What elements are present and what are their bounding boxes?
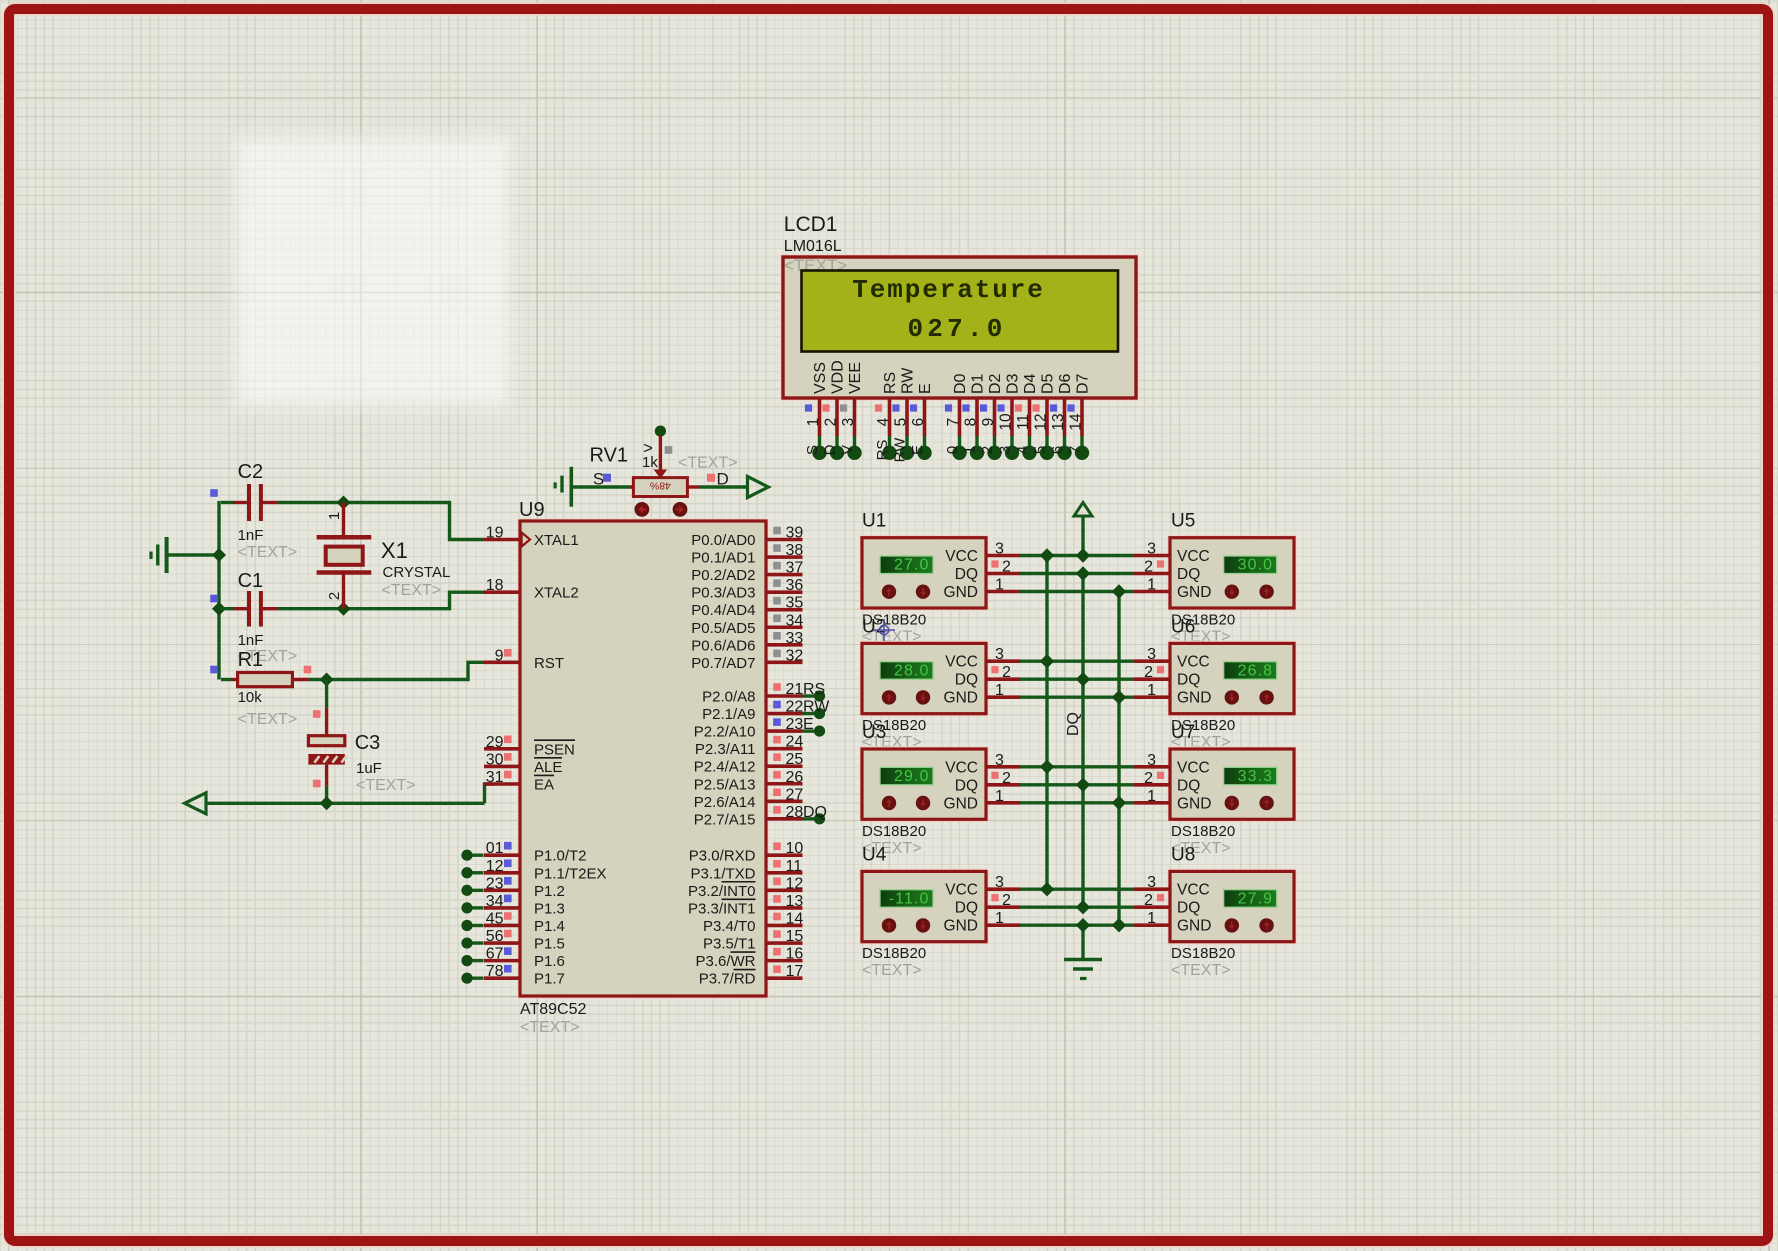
svg-text:V: V [839,445,856,455]
C1 terminal marker [210,595,218,603]
U9 pin 39 P0.0/AD0 [691,525,803,550]
junction VCC bus row4 [1040,882,1054,896]
svg-text:VCC: VCC [945,759,978,776]
U9 pin 25 P2.4/A12 [694,751,804,776]
U9 pin 38 P0.1/AD1 [691,542,803,567]
sensor row 1 GND wire [1020,590,1134,593]
svg-text:9: 9 [495,647,504,664]
U9 pin 1 P1.0/T2 [461,840,586,865]
U9 pin 15 P3.5/T1 [703,928,803,953]
resistor R1 [221,649,327,706]
svg-text:P0.7/AD7: P0.7/AD7 [691,655,755,672]
svg-text:32: 32 [786,647,804,664]
wire C1 to XTAL2 [344,592,485,609]
svg-text:DQ: DQ [955,777,978,794]
DQ bus label [1065,712,1082,736]
svg-text:29: 29 [486,734,504,751]
svg-text:GND: GND [1177,690,1211,707]
svg-text:D6: D6 [1057,373,1074,394]
svg-text:2: 2 [1002,892,1011,909]
svg-text:2: 2 [326,592,343,600]
svg-text:<TEXT>: <TEXT> [238,711,298,728]
DQ bus vertical [1081,574,1084,908]
svg-text:VEE: VEE [847,362,864,394]
junction DQ row1 [1076,566,1090,580]
svg-text:2: 2 [823,418,840,427]
U1 reference label [862,511,886,532]
svg-text:ALE: ALE [534,759,562,776]
svg-text:1: 1 [1147,788,1156,805]
cursor crosshair [873,619,895,641]
U9 pin 8 P1.7 [461,963,564,988]
U9 pin 26 P2.5/A13 [694,769,804,794]
svg-text:GND: GND [1177,918,1211,935]
svg-text:2: 2 [1144,892,1153,909]
VCC bus vertical [1045,556,1048,890]
svg-text:U1: U1 [862,511,886,532]
svg-text:GND: GND [944,584,978,601]
sensor row 2 GND wire [1020,696,1134,699]
svg-text:CRYSTAL: CRYSTAL [383,564,451,581]
svg-text:D2: D2 [987,373,1004,394]
svg-text:2: 2 [1002,559,1011,576]
svg-text:3: 3 [1147,646,1156,663]
LCD1 pin 12 D5 [1032,373,1057,460]
svg-text:P1.1/T2EX: P1.1/T2EX [534,865,607,882]
svg-text:P0.4/AD4: P0.4/AD4 [691,602,755,619]
C3 property text [356,777,416,794]
U9 pin 18 XTAL2 [484,577,579,602]
svg-text:GND: GND [1177,584,1211,601]
U6 reference label [1171,616,1195,637]
svg-text:1: 1 [1147,910,1156,927]
U9 pin 11 P3.1/TXD [690,858,802,883]
svg-text:10: 10 [998,413,1015,431]
svg-text:6: 6 [1049,446,1066,454]
C2 property text [238,544,298,561]
svg-text:28: 28 [786,804,804,821]
svg-text:C3: C3 [355,732,381,754]
sensor row 1 VCC wire [1020,554,1134,557]
potentiometer RV1 [590,426,688,497]
svg-text:U8: U8 [1171,844,1195,865]
ground (bottom) [1064,960,1102,979]
svg-text:RW: RW [803,699,830,716]
svg-text:34: 34 [486,893,504,910]
sensor U2 DS18B20 [860,641,1020,716]
svg-text:P2.6/A14: P2.6/A14 [694,794,756,811]
U9 pin 35 P0.4/AD4 [691,595,803,620]
LCD1 pin 4 RS [874,372,899,461]
U1 property text [862,629,922,646]
svg-text:3: 3 [995,541,1004,558]
LCD1 value label LM016L [784,238,842,255]
junction GND row1 [1112,584,1126,598]
node R1/C3 junction [320,673,334,687]
svg-text:3: 3 [1147,874,1156,891]
svg-text:D0: D0 [952,373,969,394]
LCD1 pin 2 VDD [822,360,847,460]
svg-text:P1.6: P1.6 [534,953,565,970]
svg-text:25: 25 [786,751,804,768]
sensor row 2 VCC wire [1020,660,1134,663]
svg-text:P3.0/RXD: P3.0/RXD [689,848,756,865]
svg-text:EA: EA [534,777,554,794]
U9 pin 33 P0.6/AD6 [691,630,803,655]
RV1 right wire and arrow terminal [687,477,768,498]
U7 property text [1171,840,1231,857]
svg-text:27.9: 27.9 [1238,890,1274,907]
svg-text:P2.3/A11: P2.3/A11 [695,741,756,758]
svg-text:P2.1/A9: P2.1/A9 [702,706,755,723]
svg-text:P3.5/T1: P3.5/T1 [703,936,756,953]
svg-text:D3: D3 [1005,373,1022,394]
sensor U6 DS18B20 [1134,641,1296,716]
svg-text:30.0: 30.0 [1238,557,1274,574]
U4 value label DS18B20 [862,945,926,962]
svg-text:VCC: VCC [945,654,978,671]
svg-text:U6: U6 [1171,616,1195,637]
svg-text:S: S [804,445,821,455]
svg-text:15: 15 [786,928,804,945]
svg-text:38: 38 [786,542,804,559]
svg-text:DQ: DQ [955,672,978,689]
svg-text:1uF: 1uF [356,760,382,777]
svg-text:VDD: VDD [830,360,847,394]
svg-text:29.0: 29.0 [894,768,930,785]
svg-text:027.0: 027.0 [907,314,1006,344]
svg-text:1nF: 1nF [238,632,264,649]
crystal X1 [317,503,451,609]
U5 reference label [1171,511,1195,532]
RV1 adjust buttons [635,502,688,517]
X1 pin 2 label [326,592,343,600]
svg-text:C2: C2 [238,461,264,483]
svg-text:1: 1 [995,682,1004,699]
svg-text:P1.4: P1.4 [534,918,565,935]
U9 pin 5 P1.4 [461,910,564,935]
white highlight patch [243,146,502,399]
svg-text:D1: D1 [970,373,987,394]
svg-text:1: 1 [326,512,343,520]
lcd LCD1 LM016L body [781,255,1138,400]
svg-text:DQ: DQ [1177,900,1200,917]
LCD1 pin 5 RW [892,367,917,463]
svg-text:19: 19 [486,525,504,542]
svg-text:U7: U7 [1171,722,1195,743]
U9 pin 6 P1.5 [461,928,564,953]
LCD1 pin 7 D0 [944,373,969,460]
svg-text:C1: C1 [238,570,264,592]
RV1 left wire [630,485,634,488]
svg-text:DS18B20: DS18B20 [862,823,926,840]
C3 top terminal marker [313,710,321,718]
junction VCC bus row2 [1040,654,1054,668]
svg-text:23: 23 [486,875,504,892]
U9 pin 7 P1.6 [461,946,564,971]
power arrow terminal [1074,503,1092,556]
svg-text:E: E [909,445,926,455]
U5 property text [1171,629,1231,646]
svg-text:3: 3 [1147,752,1156,769]
svg-text:6: 6 [910,418,927,427]
svg-text:3: 3 [995,752,1004,769]
svg-text:DQ: DQ [955,900,978,917]
svg-text:<TEXT>: <TEXT> [862,962,922,979]
svg-text:D: D [822,444,839,455]
U8 value label DS18B20 [1171,945,1235,962]
svg-text:U4: U4 [862,844,887,865]
svg-text:27: 27 [786,786,804,803]
U2 reference label [862,616,886,637]
U9 pin 24 P2.3/A11 [695,734,804,759]
sensor row 3 GND wire [1020,801,1134,804]
svg-text:4: 4 [875,417,892,426]
svg-text:VCC: VCC [1177,882,1210,899]
sensor row 3 VCC wire [1020,765,1134,768]
svg-text:3: 3 [840,418,857,427]
U9 pin 9 RST [484,647,564,672]
svg-text:GND: GND [944,918,978,935]
sensor row 4 VCC wire [1020,888,1134,891]
junction power row1 [1076,548,1090,562]
svg-text:XTAL1: XTAL1 [534,532,579,549]
svg-text:17: 17 [786,963,804,980]
svg-text:RS: RS [882,372,899,394]
sensor row 4 GND wire [1020,924,1134,927]
svg-text:DQ: DQ [955,566,978,583]
svg-text:<TEXT>: <TEXT> [1171,962,1231,979]
capacitor C3 (electrolytic) [308,680,381,804]
svg-text:1: 1 [1147,577,1156,594]
svg-text:2: 2 [1002,664,1011,681]
capacitor C2 [221,461,344,544]
left arrow terminal [185,793,206,814]
U6 value label DS18B20 [1171,717,1235,734]
U6 property text [1171,734,1231,751]
svg-text:2: 2 [1144,770,1153,787]
svg-text:48%: 48% [650,480,671,492]
U1 value label DS18B20 [862,612,926,629]
svg-text:10k: 10k [238,689,263,706]
svg-text:P3.4/T0: P3.4/T0 [703,918,756,935]
U9 pin 23 P2.2/A10 [694,716,825,741]
svg-text:1: 1 [995,788,1004,805]
mcu U9 AT89C52 body [518,519,768,998]
svg-text:22: 22 [786,699,804,716]
svg-text:3: 3 [995,874,1004,891]
svg-text:1: 1 [1147,682,1156,699]
svg-text:U3: U3 [862,722,886,743]
svg-text:35: 35 [786,595,804,612]
U9 pin 13 P3.3/INT1 [688,893,803,918]
svg-text:RW: RW [900,367,917,394]
svg-text:P3.3/INT1: P3.3/INT1 [688,900,756,917]
junction GND bus row4 [1112,918,1126,932]
svg-text:XTAL2: XTAL2 [534,585,579,602]
U9 pin 2 P1.1/T2EX [461,858,606,883]
svg-text:67: 67 [486,946,504,963]
svg-text:37: 37 [786,560,804,577]
U3 reference label [862,722,886,743]
svg-text:U5: U5 [1171,511,1195,532]
node C1 tap junction [212,602,226,616]
svg-text:RS: RS [803,681,825,698]
svg-text:21: 21 [786,681,804,698]
svg-text:-11.0: -11.0 [889,890,930,907]
svg-text:U9: U9 [519,499,545,521]
svg-text:23: 23 [786,716,804,733]
svg-text:<TEXT>: <TEXT> [520,1019,580,1036]
LCD1 pin 14 D7 [1067,373,1092,460]
svg-text:2: 2 [1144,664,1153,681]
U7 reference label [1171,722,1195,743]
svg-text:P0.2/AD2: P0.2/AD2 [691,567,755,584]
svg-text:1: 1 [995,577,1004,594]
C1 property text [238,648,298,665]
X1 property text [382,582,442,599]
svg-text:VCC: VCC [1177,548,1210,565]
ground (RV1 left, rotated) [555,467,634,507]
U3 value label DS18B20 [862,823,926,840]
svg-text:12: 12 [786,875,804,892]
svg-text:P2.7/A15: P2.7/A15 [694,811,756,828]
U9 pin 3 P1.2 [461,875,564,900]
svg-text:2: 2 [979,446,996,454]
R1 right terminal marker [304,666,312,674]
node C2/C1/ground junction [212,548,226,562]
node C3/EA junction [320,796,334,810]
svg-text:E: E [917,383,934,394]
U8 property text [1171,962,1231,979]
U9 pin 36 P0.3/AD3 [691,577,803,602]
svg-text:1nF: 1nF [238,527,264,544]
junction VCC bus row3 [1040,760,1054,774]
svg-text:11: 11 [786,858,803,875]
svg-text:33: 33 [786,630,804,647]
svg-text:P0.3/AD3: P0.3/AD3 [691,585,755,602]
LCD1 pin 11 D4 [1014,373,1039,460]
LCD1 pin 8 D1 [962,373,987,460]
junction DQ row4 [1076,900,1090,914]
U9 pin 27 P2.6/A14 [694,786,804,811]
wire C2 to XTAL1 [344,503,485,540]
LCD1 pin 1 VSS [804,362,829,460]
junction GND row2 [1112,690,1126,704]
svg-text:S: S [593,469,604,488]
svg-text:<TEXT>: <TEXT> [356,777,416,794]
svg-text:14: 14 [1068,413,1085,431]
svg-text:P2.5/A13: P2.5/A13 [694,776,756,793]
wire left vertical rail C2/C1/R1 [217,501,220,680]
svg-text:7: 7 [1067,446,1084,454]
svg-text:9: 9 [980,418,997,427]
sensor U3 DS18B20 [860,747,1020,822]
svg-text:30: 30 [486,751,504,768]
svg-text:RW: RW [892,437,909,463]
LCD1 reference label [784,213,838,236]
svg-text:1: 1 [962,446,979,454]
svg-text:D4: D4 [1022,373,1039,394]
svg-text:24: 24 [786,734,804,751]
svg-text:13: 13 [786,893,804,910]
LCD1 pin 3 VEE [839,362,864,460]
svg-text:<TEXT>: <TEXT> [238,544,298,561]
svg-text:P2.0/A8: P2.0/A8 [702,689,755,706]
sensor U7 DS18B20 [1134,747,1296,822]
GND bus vertical [1117,592,1120,926]
U9 pin 22 P2.1/A9 [702,699,830,724]
svg-text:33.3: 33.3 [1238,768,1274,785]
svg-text:13: 13 [1050,413,1067,430]
R1 property text [238,711,298,728]
R1 left terminal marker [210,666,218,674]
svg-text:P1.7: P1.7 [534,971,565,988]
sensor U5 DS18B20 [1134,536,1296,611]
U4 property text [862,962,922,979]
svg-text:VCC: VCC [945,882,978,899]
svg-text:RS: RS [874,440,891,461]
svg-text:P1.2: P1.2 [534,883,565,900]
svg-text:VCC: VCC [1177,759,1210,776]
U9 pin 10 P3.0/RXD [689,840,804,865]
svg-text:DQ: DQ [1177,566,1200,583]
svg-text:18: 18 [486,577,504,594]
X1 pin 1 label [326,512,343,520]
svg-text:DQ: DQ [803,804,827,821]
U9 value label AT89C52 [520,1001,587,1018]
svg-text:2: 2 [1002,770,1011,787]
svg-text:R1: R1 [238,649,264,671]
svg-text:1: 1 [995,910,1004,927]
svg-text:5: 5 [893,418,910,427]
svg-text:10: 10 [786,840,804,857]
capacitor C1 [221,570,344,649]
U9 pin 12 P3.2/INT0 [688,875,803,900]
svg-text:VSS: VSS [812,362,829,394]
svg-text:1k: 1k [642,454,658,471]
svg-text:2: 2 [1144,559,1153,576]
svg-text:3: 3 [995,646,1004,663]
sensor U1 DS18B20 [860,536,1020,611]
LCD1 property text [784,256,847,275]
sensor U4 DS18B20 [860,869,1020,944]
svg-text:P2.2/A10: P2.2/A10 [694,724,756,741]
U9 pin 17 P3.7/RD [699,963,804,988]
svg-text:P3.2/INT0: P3.2/INT0 [688,883,756,900]
U9 pin 4 P1.3 [461,893,564,918]
RV1 gray marker [665,446,673,454]
svg-text:27.0: 27.0 [894,557,930,574]
RV1 property text [678,455,738,472]
svg-text:8: 8 [963,418,980,427]
ground (left, rotated) [151,537,220,573]
svg-text:Temperature: Temperature [852,275,1045,305]
LCD1 pin 13 D6 [1049,373,1074,460]
svg-text:P1.3: P1.3 [534,900,565,917]
U9 pin 28 P2.7/A15 [694,804,827,829]
svg-text:DS18B20: DS18B20 [1171,823,1235,840]
svg-text:DQ: DQ [1065,712,1082,736]
U9 pin 31 EA [484,769,554,794]
svg-text:78: 78 [486,963,504,980]
U5 value label DS18B20 [1171,612,1235,629]
RV1 wiper mark [642,439,658,472]
U9 pin 32 P0.7/AD7 [691,647,803,672]
sensor row 2 DQ wire [1020,678,1134,681]
svg-text:VCC: VCC [945,548,978,565]
svg-text:12: 12 [486,858,504,875]
